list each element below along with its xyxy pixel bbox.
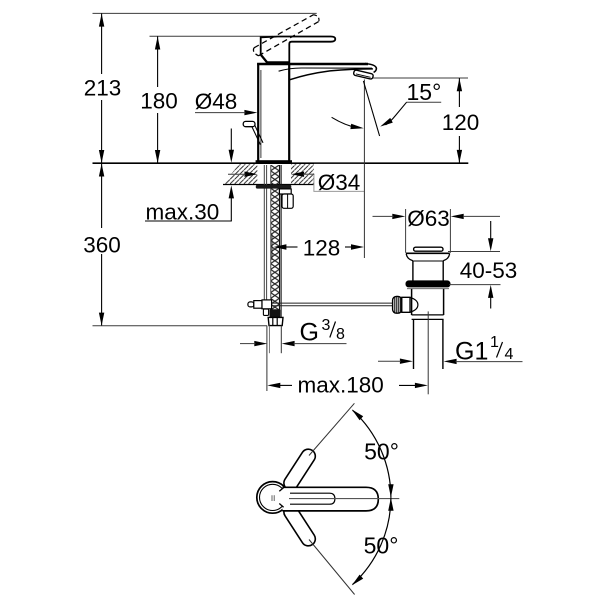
countertop hatch left: [223, 164, 257, 184]
dimension 360 line: [101, 163, 103, 228]
arrow 128 right: [351, 244, 364, 249]
top view: upper 50deg extension line: [309, 403, 354, 455]
top view: center line: [289, 498, 399, 500]
arrow G1-1/4 right: [444, 359, 457, 364]
arrow max.180 right: [415, 383, 428, 388]
svg-text:Ø34: Ø34: [318, 170, 361, 195]
top view: logo mark: [271, 495, 273, 501]
lifted handle dashed rear: [253, 48, 258, 56]
top view: junction tick upper: [279, 488, 283, 492]
max.30 lower leader: [230, 198, 232, 221]
handle base and lever: [261, 37, 336, 63]
spout underside inner line: [279, 68, 372, 71]
Ø34 left leader: [228, 173, 246, 175]
arrow G3/8 right: [282, 341, 295, 346]
pop-up knob behind body: [243, 121, 255, 126]
arrow lower arc top: [388, 498, 393, 511]
label box for Ø34: [314, 164, 364, 191]
max.30 upper arrow line: [230, 129, 232, 151]
svg-text:180: 180: [140, 89, 178, 114]
spout tip: [365, 64, 376, 73]
Ø34 right leader: [303, 173, 314, 175]
top view: body inner circle: [260, 484, 286, 510]
top view: lower 50deg extension line: [309, 540, 355, 595]
top view: lower 50deg arc: [353, 497, 391, 584]
15 degree left arc: [332, 117, 359, 128]
svg-text:max.180: max.180: [298, 373, 384, 398]
40-53 extension lines: [448, 251, 500, 253]
spout top line: [257, 63, 368, 66]
arrow 360 bottom: [99, 313, 104, 326]
arrow 213 top: [99, 14, 104, 27]
countertop top line: [93, 162, 469, 164]
arrow G3/8 left: [254, 341, 267, 346]
arrow upper arc top: [352, 409, 363, 420]
pop-up horizontal rod: [272, 302, 393, 304]
Ø63 left tail: [373, 215, 394, 217]
arrow max.30 up: [229, 185, 234, 198]
top view: lower rotated handle: [281, 502, 318, 548]
supply pipe right edge: [279, 165, 281, 317]
faucet base gasket: [256, 160, 292, 163]
pop-up rod foot: [263, 309, 268, 315]
drain body groove lines: [412, 314, 444, 316]
extension line bottom (360): [93, 325, 268, 327]
G3/8 nipple tube: [266, 326, 268, 391]
supply nut G3/8: [268, 317, 283, 325]
128 tick at faucet centerline: [271, 233, 273, 260]
arrow 180 top: [155, 37, 160, 50]
lifted handle dashed tip: [314, 15, 320, 22]
arrow 15deg left arc: [350, 124, 363, 129]
arrow max.180 left: [267, 383, 280, 388]
svg-text:4: 4: [505, 346, 514, 363]
svg-text:1: 1: [490, 334, 499, 351]
arrow Ø34 left: [245, 172, 258, 177]
pop-up rod vertical: [263, 165, 265, 309]
svg-text:3: 3: [322, 317, 331, 334]
top view: upper 50deg arc: [353, 410, 391, 497]
ball socket curve: [410, 297, 418, 312]
arrow Ø34 right: [291, 172, 304, 177]
tailpipe: [413, 319, 415, 369]
extension line (180): [150, 35, 274, 37]
svg-text:max.30: max.30: [146, 200, 220, 225]
threaded shank with pattern: [271, 165, 280, 317]
G1-1/4 right tail and underline: [456, 361, 523, 363]
svg-text:15°: 15°: [407, 79, 442, 105]
top view: handle outline: [283, 487, 379, 511]
arrow 40-53 up: [488, 285, 493, 298]
handle base chamfer mark: [261, 55, 267, 62]
top view: junction tick lower: [279, 504, 283, 508]
arrow max.30 down: [229, 150, 234, 163]
arrow Ø48: [244, 110, 257, 115]
top view: upper rotated handle: [281, 446, 318, 492]
pop-up rod clamp: [248, 302, 254, 307]
drain Ø63 extension lines: [405, 209, 407, 253]
arrow 120 bottom: [457, 150, 462, 163]
drain locking ring (black): [406, 280, 451, 287]
arrow 128 left: [273, 244, 286, 249]
Ø63 right tail: [463, 215, 500, 217]
drain plug cap: [414, 247, 443, 251]
top view: handle inner bar: [290, 493, 335, 504]
svg-text:40-53: 40-53: [460, 258, 518, 283]
rod knob (knurled): [393, 296, 402, 313]
128 dim line left part: [285, 246, 298, 248]
svg-text:128: 128: [303, 236, 341, 261]
dimension 180 line: [157, 36, 159, 87]
svg-text:213: 213: [84, 76, 122, 101]
faucet body right edge: [288, 63, 290, 160]
extension line top (213): [93, 12, 317, 14]
G3/8 left tail: [240, 343, 256, 345]
max.180 right tail: [399, 384, 416, 386]
G3/8 right tail and underline: [294, 343, 347, 345]
top view: body outer circle: [257, 482, 289, 514]
svg-text:G: G: [300, 319, 319, 347]
lifted handle dashed top line: [254, 15, 314, 48]
dimension 213 line: [101, 13, 103, 74]
arrow Ø63 left: [392, 214, 405, 219]
G1-1/4 left tail: [378, 360, 401, 362]
Ø48 leader underline: [195, 112, 246, 114]
faucet body left edge: [257, 63, 259, 160]
drain upper body sides: [412, 261, 414, 281]
svg-text:360: 360: [83, 233, 121, 258]
arrow upper arc bottom: [388, 484, 393, 497]
lifted handle dashed bottom line: [259, 21, 319, 55]
arrow 180 bottom: [155, 150, 160, 163]
svg-text:Ø48: Ø48: [195, 89, 238, 114]
drain flange top: [406, 252, 450, 254]
svg-text:120: 120: [442, 110, 480, 135]
check valve fitting: [279, 189, 291, 194]
rod joint connector: [402, 297, 410, 312]
40-53 dimension line: [490, 221, 492, 240]
arrow 120 top: [457, 78, 462, 91]
water stream vertical line: [363, 80, 365, 259]
drain lower body sides: [411, 289, 413, 315]
arrow Ø63 right: [451, 214, 464, 219]
mounting washer: [256, 185, 291, 189]
15 degree slanted line: [363, 81, 379, 136]
aerator: [353, 70, 373, 80]
countertop hatch right: [291, 164, 314, 184]
pop-up rod diagonal: [252, 127, 261, 145]
extension line (120): [372, 77, 469, 79]
spout underside outer curve: [290, 69, 373, 80]
supply pipe end fitting: [270, 309, 281, 317]
svg-text:8: 8: [336, 326, 345, 343]
arrow 40-53 down: [488, 238, 493, 251]
15 degree label leader: [406, 101, 441, 103]
128 dim line right part: [345, 246, 353, 248]
svg-text:G1: G1: [455, 338, 488, 366]
dimension 120 line: [458, 78, 460, 107]
arrow lower arc bottom: [352, 575, 363, 586]
countertop bottom line: [223, 184, 314, 186]
max.180 left tail: [280, 384, 293, 386]
arrow G1-1/4 left: [400, 359, 413, 364]
arrow 360 top: [99, 164, 104, 177]
arrow 213 bottom: [99, 150, 104, 163]
drain centerline: [427, 311, 429, 394]
arrow 15deg right arc: [380, 118, 393, 127]
svg-text:Ø63: Ø63: [407, 206, 450, 231]
